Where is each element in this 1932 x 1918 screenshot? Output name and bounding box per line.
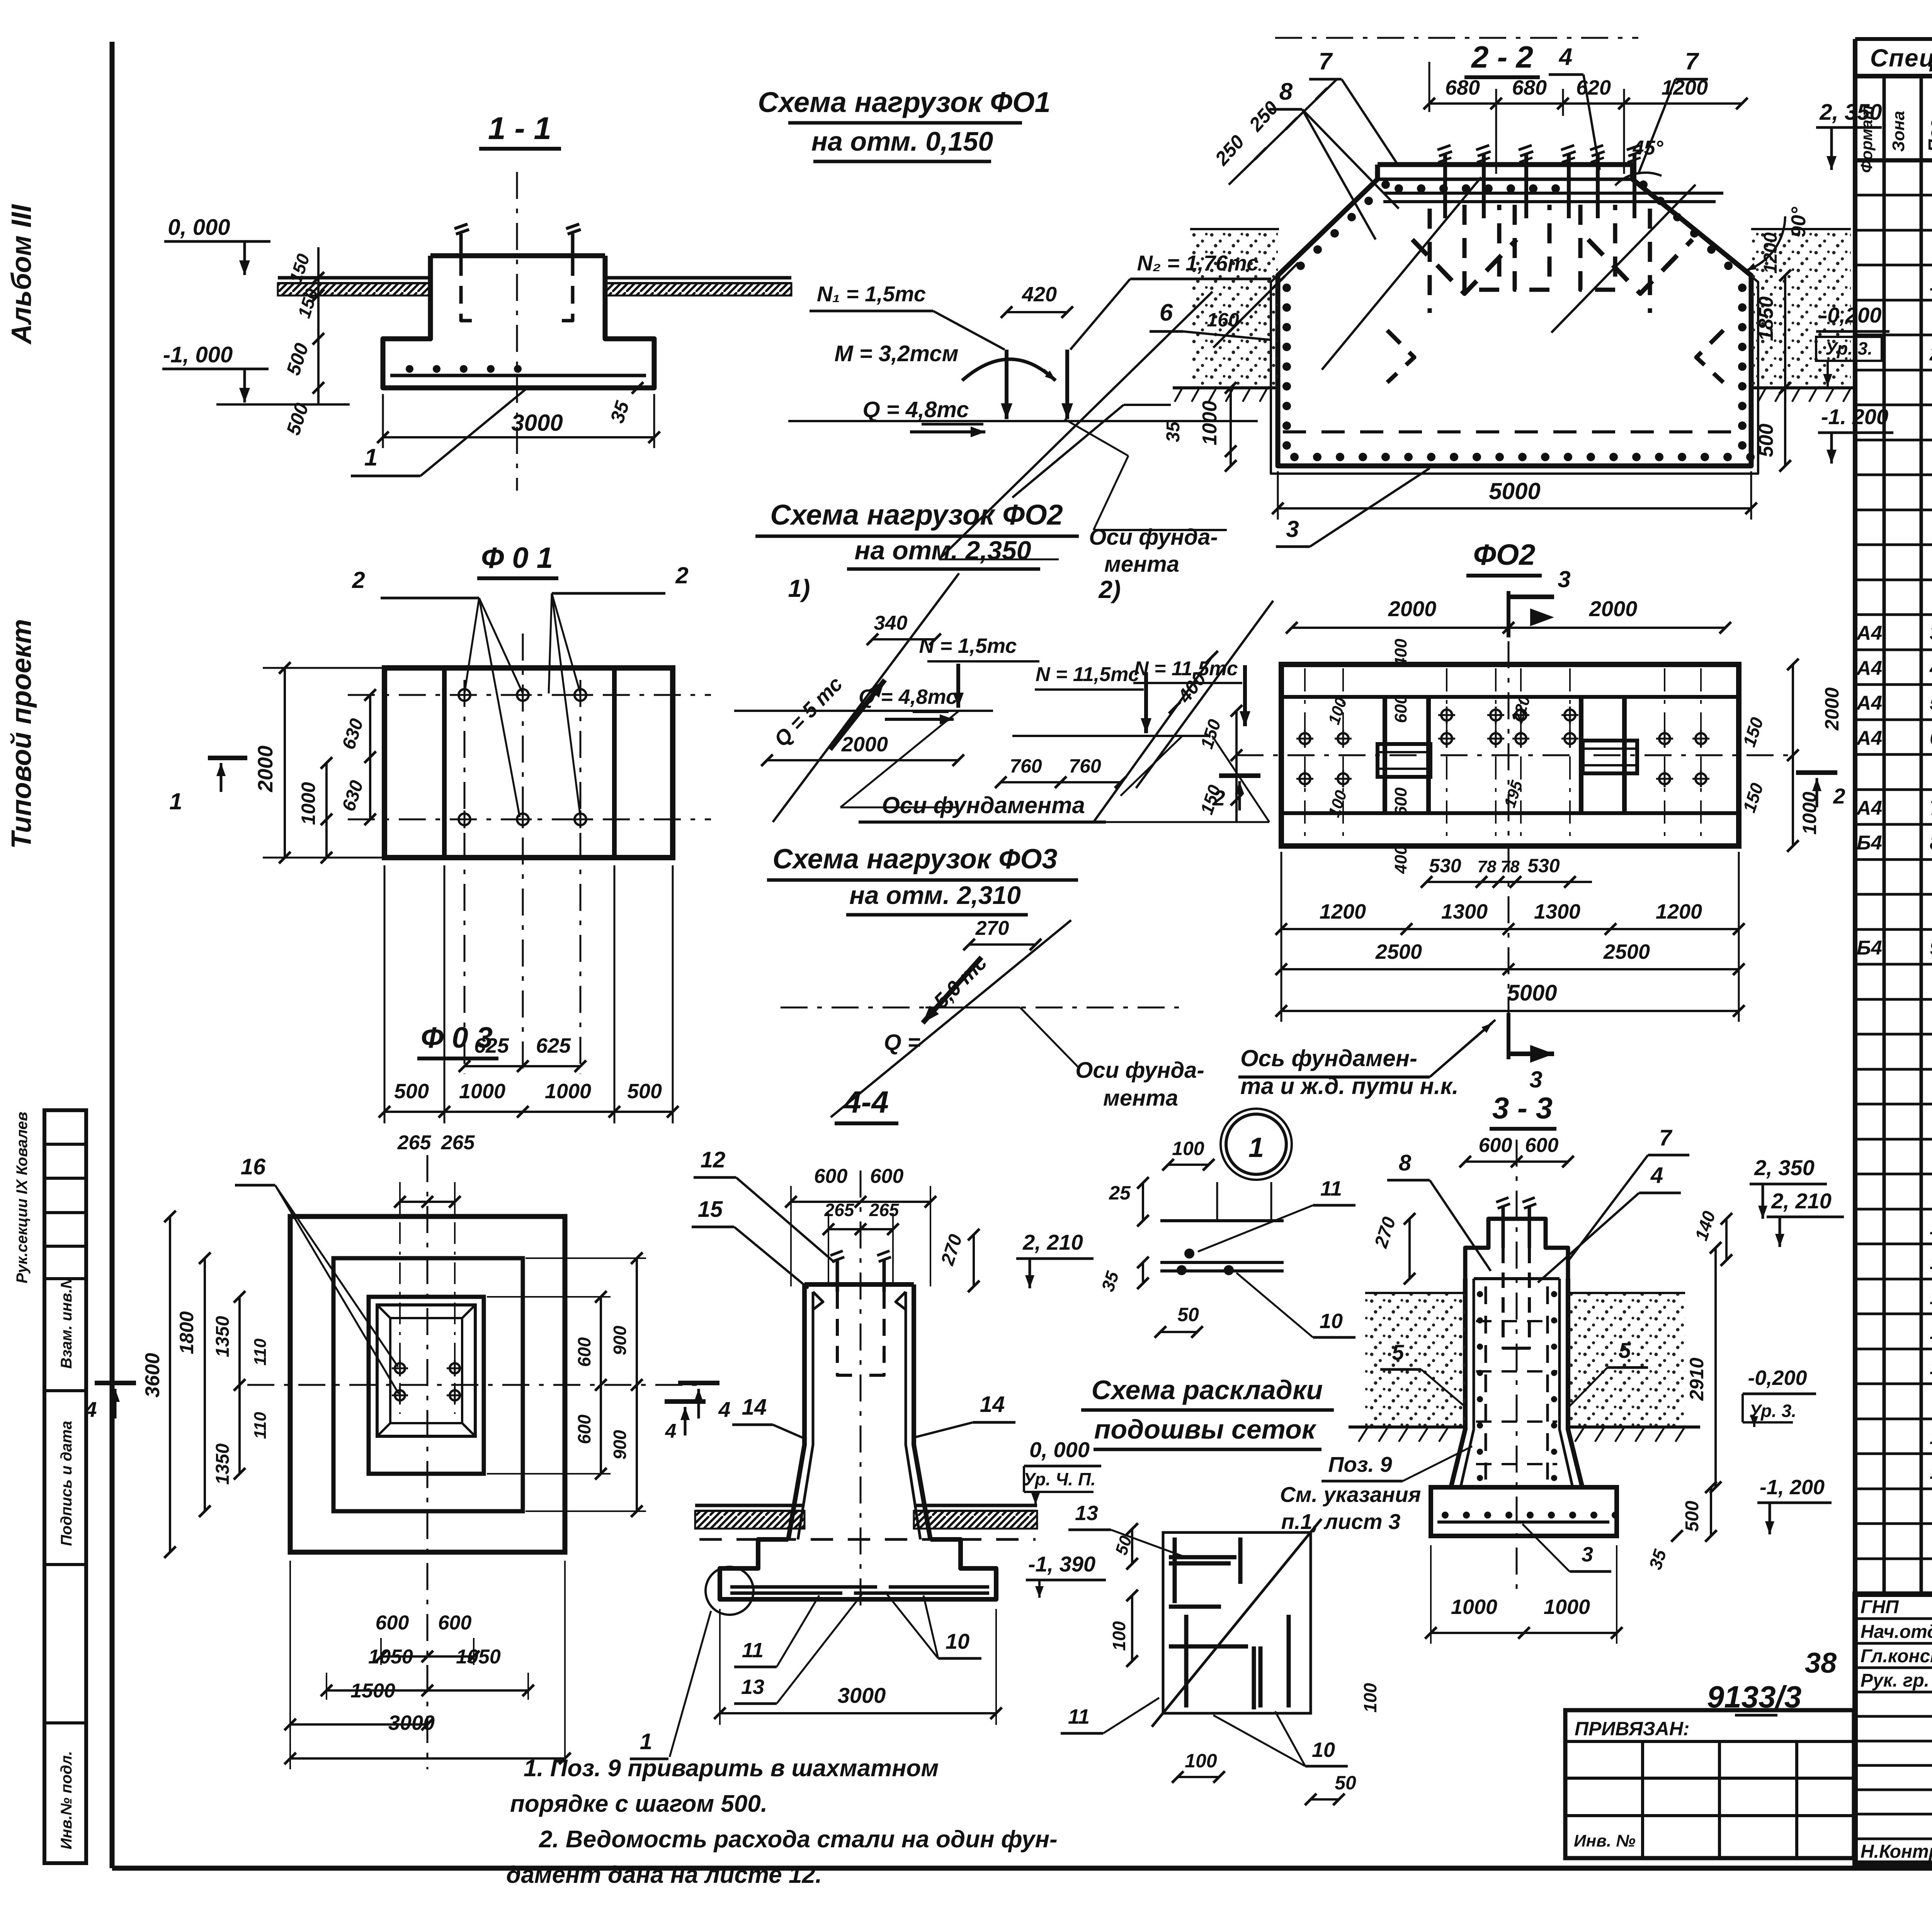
svg-text:4: 4 [718, 1397, 730, 1422]
svg-text:2500: 2500 [1375, 940, 1422, 963]
detail 1 circle [1226, 1114, 1286, 1174]
svg-text:4: 4 [84, 1397, 97, 1422]
svg-text:2, 210: 2, 210 [1771, 1189, 1832, 1213]
svg-text:Оси фунда-: Оси фунда- [1075, 1058, 1204, 1083]
dim 760 760 [1001, 781, 1121, 783]
svg-text:530: 530 [1429, 855, 1461, 877]
svg-text:1200: 1200 [1760, 232, 1781, 274]
svg-text:Ф 0 1: Ф 0 1 [481, 542, 553, 574]
svg-text:порядке с шагом 500.: порядке с шагом 500. [510, 1791, 767, 1817]
svg-text:680: 680 [1512, 76, 1547, 99]
plan FO3 left dim chains [169, 1216, 171, 1552]
svg-text:Схема нагрузок ФО3: Схема нагрузок ФО3 [772, 844, 1057, 875]
svg-text:Рук.секции IX Ковалев: Рук.секции IX Ковалев [14, 1112, 31, 1283]
svg-text:2000: 2000 [1388, 596, 1437, 621]
section 3-3 ground lines [1349, 1425, 1465, 1429]
svg-text:530: 530 [1527, 855, 1560, 877]
plan FO3 inner box [369, 1297, 484, 1474]
svg-text:3: 3 [1286, 516, 1299, 542]
svg-text:M = 3,2тсм: M = 3,2тсм [834, 341, 958, 366]
svg-text:подошвы сеток: подошвы сеток [1094, 1414, 1317, 1444]
svg-text:дамент дана на листе 12.: дамент дана на листе 12. [506, 1862, 822, 1888]
svg-text:6: 6 [1930, 727, 1932, 749]
svg-text:3 - 3: 3 - 3 [1492, 1091, 1553, 1125]
svg-text:7: 7 [1319, 48, 1333, 75]
svg-text:3: 3 [1558, 566, 1570, 592]
svg-text:9: 9 [1930, 937, 1932, 959]
svg-text:11: 11 [1320, 1177, 1342, 1200]
svg-text:N = 11,5тс: N = 11,5тс [1134, 657, 1238, 680]
svg-text:2: 2 [675, 562, 688, 588]
svg-text:8: 8 [1399, 1150, 1412, 1176]
svg-text:А4: А4 [1856, 657, 1883, 680]
detail 1 slab lines [1160, 1219, 1284, 1222]
svg-text:1350: 1350 [213, 1443, 233, 1485]
svg-text:Альбом III: Альбом III [6, 204, 37, 345]
sheet bottom border [112, 1866, 1932, 1871]
section 1-1 anchor bolt left [459, 234, 463, 258]
svg-text:7: 7 [1685, 48, 1699, 75]
svg-text:2500: 2500 [1603, 940, 1650, 963]
plan FO3 section mark 4 right [678, 1381, 719, 1385]
svg-text:14: 14 [1930, 1356, 1932, 1379]
svg-text:2, 210: 2, 210 [1022, 1230, 1083, 1254]
svg-text:600: 600 [574, 1414, 594, 1444]
svg-text:12: 12 [701, 1147, 726, 1172]
plan FO2 sleeve left [1378, 744, 1430, 777]
svg-text:-0,200: -0,200 [1748, 1366, 1807, 1390]
svg-text:Схема нагрузок ФО2: Схема нагрузок ФО2 [770, 499, 1063, 531]
svg-text:0, 000: 0, 000 [1029, 1437, 1090, 1462]
svg-text:10: 10 [1320, 1310, 1343, 1333]
svg-text:5000: 5000 [1507, 980, 1557, 1006]
svg-text:2: 2 [1929, 343, 1932, 365]
plan FO2 axis lines [1236, 754, 1793, 756]
plan FO2 dim 5000 [1281, 1010, 1739, 1012]
svg-text:Q =: Q = [884, 1030, 920, 1055]
svg-text:14: 14 [742, 1395, 767, 1420]
svg-text:45°: 45° [1633, 137, 1664, 159]
svg-text:9133/3: 9133/3 [1707, 1680, 1802, 1714]
section 1-1 center axis [516, 172, 518, 491]
svg-text:13: 13 [1075, 1502, 1098, 1525]
svg-text:1200: 1200 [1656, 900, 1702, 923]
plan FO1 bottom dims 500 1000 1000 500 [384, 1111, 673, 1113]
plan FO3 bottom dim 1050 1050 [327, 1689, 528, 1692]
plan FO1 outer rect [384, 668, 673, 858]
svg-text:Q = 4,8тс: Q = 4,8тс [859, 685, 957, 708]
svg-text:400: 400 [1391, 845, 1410, 874]
svg-text:2000: 2000 [254, 746, 277, 792]
svg-text:на отм. 2,310: на отм. 2,310 [849, 881, 1021, 909]
svg-text:2, 350: 2, 350 [1819, 100, 1882, 125]
svg-text:500: 500 [1755, 424, 1777, 457]
svg-text:Поз. 9: Поз. 9 [1328, 1452, 1392, 1476]
plan FO2 anchor circles left group [1299, 733, 1310, 744]
plan FO2 dims 2500 2500 [1281, 968, 1739, 970]
svg-text:600: 600 [1525, 1134, 1559, 1157]
svg-text:2000: 2000 [1589, 596, 1638, 621]
svg-text:265: 265 [869, 1200, 900, 1220]
FO3 diagonal axis [831, 920, 1071, 1117]
plan FO1 right small dims 630 [369, 695, 371, 819]
svg-text:Рук. гр.: Рук. гр. [1861, 1670, 1929, 1691]
section 2-2 corner chevrons dashed [1387, 330, 1414, 382]
plan FO2 dims 530 78 78 530 [1427, 881, 1592, 883]
svg-text:900: 900 [610, 1430, 630, 1459]
section 3-3 footing [1431, 1487, 1617, 1536]
svg-text:600: 600 [870, 1165, 904, 1187]
left margin cells [44, 1110, 86, 1863]
plan FO3 bottom dim 3000 [290, 1757, 565, 1760]
svg-text:п.1, лист 3: п.1, лист 3 [1281, 1509, 1401, 1534]
svg-text:100: 100 [1172, 1138, 1204, 1159]
svg-text:2): 2) [1099, 576, 1121, 603]
svg-text:500: 500 [394, 1080, 429, 1103]
svg-text:10: 10 [1312, 1738, 1335, 1762]
svg-text:5: 5 [1392, 1340, 1404, 1364]
svg-text:110: 110 [251, 1412, 270, 1439]
svg-text:Гл.констр: Гл.констр [1861, 1646, 1932, 1667]
svg-text:1000: 1000 [1451, 1595, 1497, 1619]
svg-text:2. Ведомость расхода стали н: 2. Ведомость расхода стали на один фун- [539, 1826, 1058, 1853]
svg-text:-1. 200: -1. 200 [1821, 404, 1888, 429]
svg-text:270: 270 [975, 917, 1009, 939]
privyazan box [1565, 1710, 1854, 1858]
plan FO2 top dims 2000 2000 [1292, 627, 1725, 629]
mesh layout square [1163, 1532, 1311, 1713]
section 2-2 anchor bolts top [1443, 154, 1447, 218]
section 3-3 top dims 600 600 [1465, 1160, 1568, 1163]
plan FO2 inner vertical walls [1383, 697, 1387, 813]
svg-text:620: 620 [1576, 76, 1611, 99]
section 1-1 floor slab right [605, 276, 791, 280]
section 1-1 foundation outline [430, 253, 605, 258]
svg-text:См. указания: См. указания [1280, 1482, 1421, 1507]
svg-text:7: 7 [1930, 797, 1932, 819]
svg-text:Зона: Зона [1889, 111, 1908, 152]
svg-text:Ось фундамен-: Ось фундамен- [1240, 1045, 1417, 1071]
plan FO1 anchor circles [459, 689, 470, 701]
svg-text:1200: 1200 [1320, 900, 1366, 923]
svg-text:1): 1) [788, 574, 810, 602]
svg-text:Ур. 3.: Ур. 3. [1825, 338, 1872, 358]
svg-text:50: 50 [1177, 1304, 1199, 1325]
section 2-2 big chevrons dashed [1412, 240, 1517, 294]
svg-text:13: 13 [741, 1675, 764, 1699]
svg-text:100: 100 [1185, 1750, 1217, 1772]
svg-text:N₁ = 1,5тс: N₁ = 1,5тс [817, 282, 926, 306]
svg-text:1350: 1350 [213, 1316, 233, 1357]
plan FO3 middle rect [333, 1258, 523, 1511]
svg-text:0, 000: 0, 000 [168, 215, 230, 240]
svg-text:2910: 2910 [1686, 1357, 1708, 1401]
FO3 force arrow [923, 957, 981, 1023]
svg-text:А4: А4 [1856, 692, 1883, 714]
svg-text:500: 500 [1682, 1501, 1702, 1532]
section 3-3 bolts [1502, 1205, 1505, 1248]
svg-text:900: 900 [610, 1325, 630, 1355]
svg-text:8: 8 [1930, 832, 1932, 854]
svg-text:1050: 1050 [456, 1646, 501, 1668]
svg-text:78: 78 [1501, 857, 1520, 876]
section 2-2 hairpin rebars dashed [1464, 205, 1499, 290]
svg-text:1000: 1000 [1199, 401, 1221, 445]
svg-text:3600: 3600 [141, 1353, 164, 1398]
svg-text:15: 15 [698, 1197, 723, 1222]
plan FO2 anchor circles right group [1659, 733, 1670, 744]
plan FO2 anchor circles center group [1441, 710, 1452, 720]
svg-text:Оси фунда-: Оси фунда- [1089, 525, 1218, 550]
svg-text:600: 600 [1391, 695, 1410, 723]
svg-text:90°: 90° [1787, 206, 1810, 237]
svg-text:1300: 1300 [1534, 900, 1580, 923]
plan FO3 axis lines [247, 1384, 703, 1386]
section 2-2 formwork thin outer line [1271, 185, 1758, 474]
Q2 arrow [830, 680, 885, 749]
svg-text:4: 4 [1929, 657, 1932, 680]
svg-text:Б4: Б4 [1857, 937, 1882, 959]
section 1-1 dim 3000 [383, 436, 654, 438]
svg-text:760: 760 [1010, 755, 1042, 777]
section 2-2 foundation outline [1378, 162, 1633, 167]
section 3-3 center axis [1516, 1140, 1518, 1592]
svg-text:600: 600 [376, 1612, 409, 1634]
section 2-2 top dims 680 680 620 1200 [1429, 102, 1742, 105]
svg-text:10: 10 [946, 1629, 969, 1653]
section 1-1 floor slab left [278, 276, 430, 280]
svg-text:7: 7 [1659, 1125, 1673, 1150]
section 4-4 column walls [788, 1292, 804, 1539]
svg-text:10: 10 [1930, 1216, 1932, 1239]
svg-text:100: 100 [1109, 1621, 1129, 1651]
FO3 horizontal dashdot [781, 1007, 1183, 1009]
svg-text:Q = 4,8тс: Q = 4,8тс [863, 397, 969, 422]
plan FO2 section marks 2 [1219, 773, 1260, 778]
table rows [1855, 194, 1932, 197]
plan FO1 axis lines [348, 694, 711, 696]
section 4-4 detail circle [706, 1567, 753, 1615]
section 1-1 left dim chain [317, 247, 320, 404]
svg-text:Поз.: Поз. [1925, 114, 1932, 152]
plan FO1 left dims [284, 668, 286, 858]
section 2-2 inner diagonals [1322, 177, 1481, 370]
svg-text:38: 38 [1805, 1647, 1837, 1679]
plan FO2 sleeve right [1583, 741, 1637, 773]
section 4-4 dim 3000 [720, 1712, 996, 1714]
section 1-1 anchor bolt right [571, 234, 575, 258]
section 4-4 floor slab left [695, 1504, 804, 1507]
svg-text:-1, 000: -1, 000 [163, 342, 233, 367]
plan FO1 bottom dims 625 625 [464, 1065, 580, 1067]
svg-text:Ур. Ч. П.: Ур. Ч. П. [1023, 1469, 1096, 1489]
section 4-4 top dims 265 265 [828, 1228, 893, 1230]
svg-text:N = 11,5тс: N = 11,5тс [1036, 663, 1139, 686]
svg-text:1: 1 [640, 1729, 652, 1754]
svg-text:600: 600 [574, 1337, 594, 1367]
svg-text:15: 15 [1930, 1426, 1932, 1449]
svg-text:3: 3 [1582, 1543, 1593, 1566]
plan FO3 bottom dim 1500 [290, 1723, 427, 1726]
svg-text:-0,200: -0,200 [1820, 303, 1882, 327]
section 2-2 bottom dim 5000 [1278, 507, 1751, 510]
svg-text:мента: мента [1103, 1086, 1178, 1111]
svg-text:А4: А4 [1856, 727, 1883, 749]
section 3-3 inner dashed rebars [1485, 1286, 1487, 1480]
svg-text:265: 265 [397, 1131, 432, 1154]
svg-text:1500: 1500 [350, 1680, 395, 1702]
svg-text:1: 1 [1248, 1132, 1264, 1163]
svg-text:1000: 1000 [459, 1080, 505, 1103]
svg-text:50: 50 [1335, 1772, 1356, 1794]
spec table title [1855, 37, 1932, 41]
svg-text:1050: 1050 [368, 1646, 413, 1668]
svg-text:2: 2 [352, 567, 365, 593]
svg-text:1000: 1000 [1544, 1595, 1590, 1619]
svg-text:мента: мента [1104, 552, 1179, 577]
section 2-2 perimeter rebar dots [1290, 453, 1299, 461]
svg-text:680: 680 [1445, 76, 1480, 99]
svg-text:2 - 2: 2 - 2 [1471, 40, 1533, 74]
section 3-3 ground stipple left [1365, 1293, 1465, 1427]
svg-text:2000: 2000 [841, 733, 888, 756]
plan FO2 section mark 3 bottom [1507, 1013, 1510, 1059]
section 3-3 dims 1000 1000 [1431, 1632, 1617, 1634]
svg-text:1: 1 [1930, 273, 1932, 295]
svg-text:Типовой проект: Типовой проект [6, 619, 37, 849]
svg-text:420: 420 [1022, 283, 1057, 306]
svg-text:11: 11 [1068, 1705, 1090, 1728]
svg-text:-1, 200: -1, 200 [1760, 1476, 1825, 1499]
svg-text:Подпись и дата: Подпись и дата [58, 1421, 75, 1546]
svg-text:600: 600 [1479, 1134, 1512, 1157]
svg-text:11: 11 [1930, 1251, 1932, 1274]
svg-text:3000: 3000 [511, 410, 563, 436]
section 2-2 top axis dashdot [1275, 37, 1638, 39]
svg-text:8: 8 [1279, 78, 1293, 105]
svg-text:ГНП: ГНП [1861, 1597, 1899, 1617]
svg-text:625: 625 [536, 1034, 571, 1057]
svg-text:2, 350: 2, 350 [1754, 1155, 1815, 1180]
svg-text:N = 1,5тс: N = 1,5тс [919, 634, 1017, 657]
svg-text:1000: 1000 [545, 1080, 591, 1103]
plan FO1 section mark 1 left [208, 756, 247, 760]
svg-text:2000: 2000 [1821, 687, 1843, 731]
svg-text:1 - 1: 1 - 1 [488, 111, 551, 146]
section 2-2 ground stipple right [1751, 229, 1851, 388]
svg-text:-1, 390: -1, 390 [1028, 1552, 1095, 1576]
title block frame [1855, 1594, 1932, 1863]
section 3-3 column walls [1451, 1279, 1465, 1487]
svg-text:3000: 3000 [388, 1711, 435, 1735]
section 2-2 ground line right [1751, 386, 1857, 389]
section 2-2 ground line left [1173, 386, 1278, 389]
load diagram FO1 axes [788, 420, 1258, 422]
svg-text:ФО2: ФО2 [1473, 539, 1536, 571]
svg-text:5000: 5000 [1489, 478, 1540, 504]
svg-text:110: 110 [251, 1338, 270, 1366]
svg-text:А4: А4 [1856, 622, 1883, 644]
svg-text:Схема нагрузок ФО1: Схема нагрузок ФО1 [758, 86, 1051, 118]
section 4-4 leader from circle [670, 1611, 711, 1757]
svg-text:13: 13 [1930, 1321, 1932, 1344]
svg-text:1200: 1200 [1662, 76, 1708, 99]
svg-text:1300: 1300 [1441, 900, 1488, 923]
section 3-3 ground stipple right [1568, 1293, 1685, 1427]
svg-text:Нач.отд.: Нач.отд. [1861, 1622, 1932, 1642]
section 4-4 footing steps [720, 1539, 996, 1599]
svg-text:14: 14 [980, 1392, 1005, 1417]
svg-text:16: 16 [1930, 1461, 1932, 1483]
svg-text:Спецификация элементов и мате: Спецификация элементов и материалов на о… [1870, 44, 1932, 72]
plan FO3 outer rect [290, 1216, 565, 1552]
plan FO1 inner band lines [442, 668, 447, 858]
section 3-3 wall dots [1477, 1291, 1483, 1297]
svg-text:400: 400 [1391, 639, 1410, 668]
svg-text:Ф 0 3: Ф 0 3 [421, 1021, 493, 1054]
svg-text:1850: 1850 [1755, 296, 1777, 341]
svg-text:1000: 1000 [298, 782, 319, 825]
svg-text:25: 25 [1109, 1182, 1131, 1204]
section 1-1 bottom rebar mesh [390, 374, 646, 377]
svg-text:5: 5 [1930, 692, 1932, 714]
section 4-4 top dims 600 600 [791, 1201, 930, 1203]
svg-text:4-4: 4-4 [843, 1085, 889, 1119]
diagram 1 axis [734, 710, 993, 712]
svg-text:11: 11 [742, 1639, 764, 1662]
section 4-4 section mark 4 left [665, 1399, 706, 1404]
svg-text:Взам. инв.N: Взам. инв.N [58, 1277, 75, 1369]
svg-text:6: 6 [1160, 299, 1173, 326]
svg-text:Инв. №: Инв. № [1574, 1831, 1636, 1850]
load arrows FO1 [1005, 350, 1009, 419]
svg-text:600: 600 [1391, 787, 1410, 816]
moment arc [962, 359, 1051, 381]
svg-text:265: 265 [441, 1131, 475, 1154]
plan FO3 right dims [600, 1297, 602, 1474]
svg-text:4: 4 [1558, 44, 1572, 70]
plan FO2 inner horizontal lines [1281, 695, 1739, 699]
svg-text:600: 600 [438, 1612, 472, 1634]
svg-text:1800: 1800 [176, 1311, 197, 1354]
svg-text:5: 5 [1619, 1338, 1631, 1362]
axes label lines diag1 [840, 711, 959, 807]
plan FO3 bottom dim 600 600 [381, 1655, 474, 1658]
svg-text:1: 1 [364, 444, 378, 471]
plan FO2 section mark 3 top [1507, 591, 1510, 637]
svg-text:760: 760 [1069, 755, 1101, 777]
svg-text:А4: А4 [1856, 797, 1883, 819]
diagram 2 [1012, 735, 1209, 737]
svg-text:3: 3 [1930, 622, 1932, 644]
svg-text:1: 1 [169, 788, 182, 814]
svg-text:12: 12 [1930, 1286, 1932, 1309]
section 4-4 floor slab right [914, 1504, 1037, 1507]
svg-text:Оси фундамента: Оси фундамента [882, 792, 1085, 818]
plan FO3 anchor circles [395, 1363, 405, 1373]
svg-text:ПРИВЯЗАН:: ПРИВЯЗАН: [1575, 1718, 1690, 1740]
section 4-4 center axis [860, 1171, 862, 1615]
svg-text:35: 35 [1163, 421, 1184, 442]
section 4-4 column cap [804, 1282, 914, 1287]
mesh layout tick marks top [1131, 1529, 1133, 1564]
svg-text:600: 600 [814, 1165, 848, 1187]
svg-text:340: 340 [874, 612, 908, 634]
svg-text:4: 4 [1650, 1163, 1663, 1188]
svg-text:3000: 3000 [838, 1683, 886, 1707]
plan FO2 dims 1200 1300 1300 1200 [1281, 928, 1739, 930]
svg-text:2: 2 [1833, 784, 1845, 808]
